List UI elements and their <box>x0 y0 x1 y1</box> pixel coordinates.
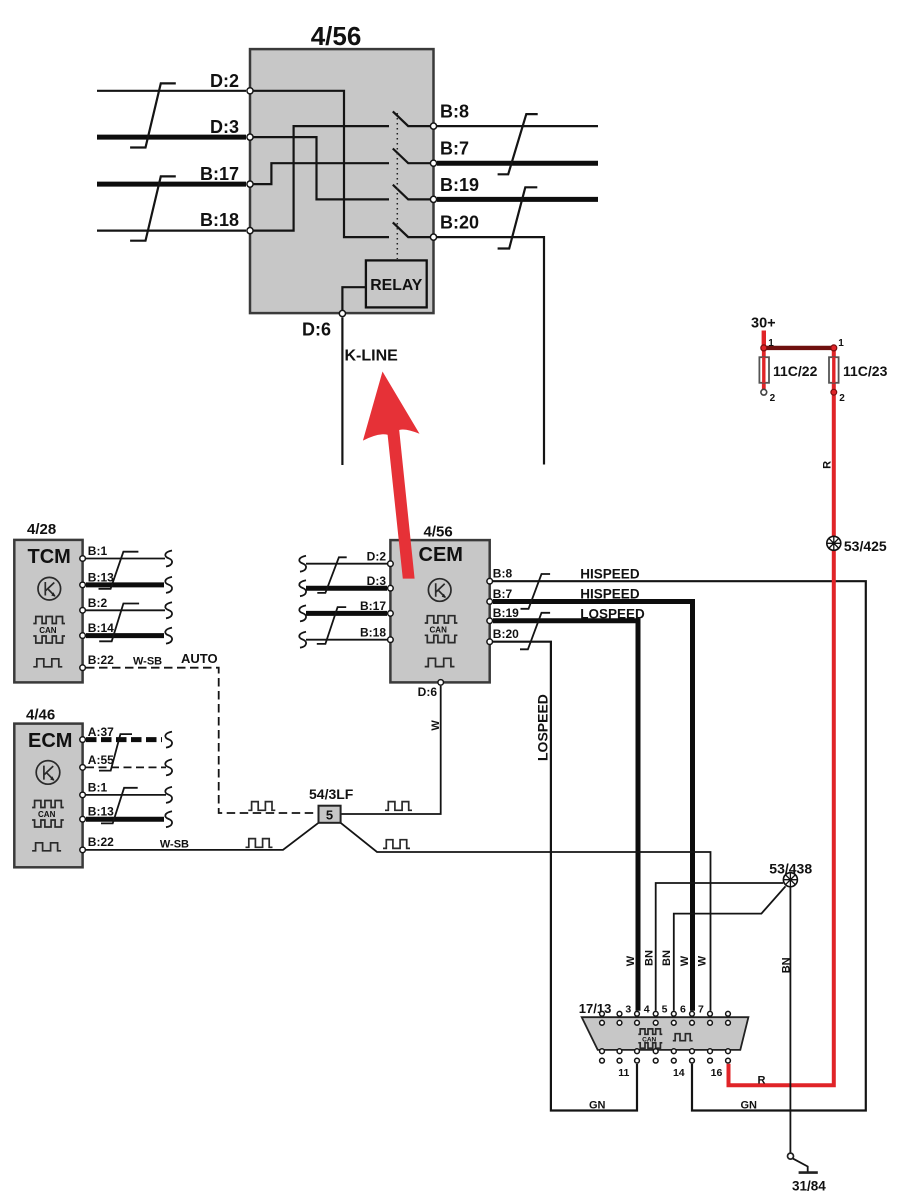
pin top inner #6 (17/13) <box>690 1020 695 1025</box>
break slash B:8/B:7 (CEM) <box>521 574 551 609</box>
svg-text:B:20: B:20 <box>493 627 519 641</box>
pin B:13 ECM <box>80 816 86 822</box>
connector symbol 53/438 <box>783 873 797 887</box>
wire-start squiggle D:3 <box>299 580 306 596</box>
pulse symbol TCM bottom <box>33 659 62 667</box>
break slash B:19/B:20 (CEM) <box>520 613 550 650</box>
svg-text:31/84: 31/84 <box>792 1178 826 1193</box>
pin bottom outer #4 (17/13) <box>653 1058 658 1063</box>
svg-text:4/56: 4/56 <box>311 21 362 51</box>
pin B:19 <box>430 196 436 202</box>
pin B:22 TCM <box>80 665 86 671</box>
wire-end squiggle B:2 <box>165 602 172 618</box>
svg-text:A:55: A:55 <box>88 753 114 767</box>
wire-end squiggle B:1 ECM <box>165 787 172 803</box>
wire-start squiggle B:17 <box>299 605 306 621</box>
red supply stub from 30+ <box>762 331 766 348</box>
svg-text:4/56: 4/56 <box>424 523 453 540</box>
wire-end squiggle A:55 <box>165 759 172 775</box>
pin B:20 CEM <box>487 639 493 645</box>
pin top outer #8 (17/13) <box>726 1011 731 1016</box>
svg-text:D:3: D:3 <box>210 117 239 137</box>
wire B:1 ECM <box>86 794 166 796</box>
relay control dotted line <box>396 113 398 259</box>
wire B:14 TCM (thick) <box>86 633 164 638</box>
wire A:37 ECM (thick dashed) <box>86 737 162 742</box>
pin bottom outer #5 (17/13) <box>671 1058 676 1063</box>
pin bottom outer #7 (17/13) <box>708 1058 713 1063</box>
break slash B:17/B:18 <box>130 176 176 240</box>
svg-text:B:18: B:18 <box>360 625 386 639</box>
pin top inner #2 (17/13) <box>617 1020 622 1025</box>
pin top outer #5 (17/13) <box>671 1011 676 1016</box>
control unit box 4/56 (top relay unit) <box>250 49 434 313</box>
wire-end squiggle B:13 ECM <box>165 811 172 827</box>
svg-text:B:1: B:1 <box>88 544 108 558</box>
fuse body 11C/22 <box>759 357 769 383</box>
pin D:6 CEM <box>438 680 444 686</box>
pin top outer #2 (17/13) <box>617 1011 622 1016</box>
svg-text:11C/23: 11C/23 <box>843 363 888 379</box>
svg-text:CAN: CAN <box>642 1036 656 1043</box>
svg-text:BN: BN <box>643 950 655 966</box>
pin top outer #3 (17/13) <box>635 1011 640 1016</box>
svg-text:CAN: CAN <box>430 625 448 634</box>
svg-text:W: W <box>696 955 708 966</box>
pulse symbol on ECM B:22 wire <box>246 839 273 848</box>
pin bottom outer #2 (17/13) <box>617 1058 622 1063</box>
break slash B:2/B:14 <box>99 604 139 642</box>
break slash A:37/A:55 <box>99 734 132 771</box>
pin bottom inner #2 (17/13) <box>617 1049 622 1054</box>
K-symbol CEM <box>428 579 451 602</box>
break slash B:17/B:18 (CEM) <box>317 607 346 644</box>
wire B:7 HISPEED (thick) down to pin 6 <box>493 602 693 1011</box>
fuse element 11C/22 (red) <box>762 357 765 383</box>
fuse element 11C/23 (red) <box>832 357 835 383</box>
pin B:7 <box>430 160 436 166</box>
wire B:17 left (thick) <box>97 182 246 187</box>
red wire through fuse 11C/23 down to bottom <box>729 348 834 1085</box>
wire BN to pin 4 <box>656 883 784 1011</box>
internal wire D:3 to switch 3 <box>252 137 389 199</box>
svg-text:B:17: B:17 <box>360 599 386 613</box>
pin bottom inner #3 (17/13) <box>635 1049 640 1054</box>
internal wire B:18 to switch 1 <box>252 126 389 231</box>
pin bottom outer #6 (17/13) <box>690 1058 695 1063</box>
pin D:3 CEM <box>388 585 394 591</box>
wire D:6 CEM down to 54/3LF <box>341 686 441 814</box>
pin D:6 (top box) <box>339 310 345 316</box>
pin B:18 CEM <box>388 637 394 643</box>
wire B:20 LOSPEED to GN pin 11 <box>493 642 637 1111</box>
junction dot 1 (11C/23) <box>831 345 837 351</box>
wire D:2 left <box>97 90 246 92</box>
svg-text:B:8: B:8 <box>493 567 513 581</box>
pulse symbol on D:6 wire <box>385 802 412 811</box>
terminal 2 of 11C/23 (red dot) <box>831 389 837 395</box>
break slash D:2/D:3 <box>130 83 176 147</box>
pin bottom inner #5 (17/13) <box>671 1049 676 1054</box>
pin A:37 <box>80 737 86 743</box>
pin B:22 ECM <box>80 847 86 853</box>
wire K-LINE <box>341 318 343 466</box>
CAN symbol TCM <box>33 617 65 644</box>
internal wire D:2 to switch 4 <box>252 91 389 237</box>
pin top inner #1 (17/13) <box>600 1020 605 1025</box>
wire B:22 TCM dashed (W-SB / AUTO) <box>86 668 319 813</box>
wire B:17 CEM (thick) <box>306 611 387 616</box>
junction box 54/3LF <box>319 806 341 823</box>
wire B:2 TCM <box>86 609 165 611</box>
svg-text:2: 2 <box>770 393 776 404</box>
pin bottom inner #7 (17/13) <box>708 1049 713 1054</box>
svg-text:3: 3 <box>625 1004 631 1016</box>
pin bottom outer #1 (17/13) <box>600 1058 605 1063</box>
wire B:20 right, turns down <box>437 237 544 464</box>
wire D:3 left (thick) <box>97 135 246 140</box>
svg-text:W: W <box>430 720 442 731</box>
pin top inner #4 (17/13) <box>653 1020 658 1025</box>
pin bottom inner #4 (17/13) <box>653 1049 658 1054</box>
wire B:7 right (thick) <box>437 161 598 166</box>
connector symbol 53/425 <box>827 536 841 550</box>
ground bar 31/84 <box>799 1171 818 1174</box>
pin B:20 <box>430 234 436 240</box>
svg-text:CAN: CAN <box>38 810 56 819</box>
control unit box 4/28 TCM <box>14 540 82 683</box>
pin D:2 CEM <box>388 561 394 567</box>
pin B:17 CEM <box>388 611 394 617</box>
svg-text:1: 1 <box>768 338 774 349</box>
wire B:18 CEM <box>306 639 387 641</box>
svg-text:16: 16 <box>711 1067 723 1079</box>
pin top inner #7 (17/13) <box>708 1020 713 1025</box>
red arrow <box>363 372 420 579</box>
svg-text:CAN: CAN <box>39 626 57 635</box>
svg-text:2: 2 <box>839 393 845 404</box>
pin B:18 <box>247 228 253 234</box>
pin top outer #4 (17/13) <box>653 1011 658 1016</box>
svg-text:B:17: B:17 <box>200 164 239 184</box>
svg-text:6: 6 <box>680 1004 686 1016</box>
svg-text:B:7: B:7 <box>440 139 469 159</box>
wire-end squiggle B:14 <box>165 628 172 644</box>
pin top outer #6 (17/13) <box>690 1011 695 1016</box>
svg-text:11C/22: 11C/22 <box>773 363 818 379</box>
svg-text:4/46: 4/46 <box>26 707 55 724</box>
pin A:55 <box>80 765 86 771</box>
CAN symbol CEM <box>425 616 458 643</box>
wire relay to D:6 <box>342 287 366 310</box>
pin B:8 CEM <box>487 578 493 584</box>
switch 3 (B:19) <box>393 185 431 200</box>
svg-text:B:18: B:18 <box>200 210 239 230</box>
svg-text:HISPEED: HISPEED <box>580 587 640 602</box>
wire-end squiggle B:1 <box>165 551 172 567</box>
svg-text:B:13: B:13 <box>88 805 114 819</box>
svg-text:TCM: TCM <box>28 546 71 568</box>
pin bottom inner #6 (17/13) <box>690 1049 695 1054</box>
svg-text:B:22: B:22 <box>88 653 114 667</box>
pin top inner #3 (17/13) <box>635 1020 640 1025</box>
svg-text:BN: BN <box>661 950 673 966</box>
dark red feed line between fuse pins 1 <box>764 346 834 350</box>
pin B:13 TCM <box>80 582 86 588</box>
svg-text:53/425: 53/425 <box>844 538 887 554</box>
svg-text:14: 14 <box>673 1067 685 1079</box>
svg-text:W-SB: W-SB <box>133 655 162 667</box>
pin B:1 ECM <box>80 792 86 798</box>
svg-text:R: R <box>758 1074 766 1086</box>
svg-text:B:22: B:22 <box>88 835 114 849</box>
CAN symbol (17/13) <box>638 1029 662 1048</box>
svg-text:7: 7 <box>698 1004 704 1016</box>
K-symbol TCM <box>38 577 61 600</box>
ground terminal circle <box>788 1153 794 1159</box>
K-symbol ECM <box>36 761 60 785</box>
break slash B:1/B:13 <box>99 552 139 589</box>
svg-text:4/28: 4/28 <box>27 521 56 538</box>
wire-end squiggle A:37 <box>165 732 172 748</box>
svg-text:HISPEED: HISPEED <box>580 566 640 581</box>
svg-text:B:19: B:19 <box>440 175 479 195</box>
svg-text:4: 4 <box>644 1004 650 1016</box>
svg-text:1: 1 <box>838 338 844 349</box>
svg-text:W: W <box>679 955 691 966</box>
pin bottom outer #8 (17/13) <box>726 1058 731 1063</box>
svg-text:R: R <box>822 461 834 469</box>
open terminal 2 of 11C/22 <box>761 389 767 395</box>
wire BN from 53/438 to ground <box>789 887 791 1153</box>
svg-text:D:2: D:2 <box>367 549 387 563</box>
svg-text:B:13: B:13 <box>88 570 114 584</box>
pin top inner #5 (17/13) <box>671 1020 676 1025</box>
svg-text:11: 11 <box>618 1067 629 1079</box>
svg-text:D:6: D:6 <box>302 320 331 340</box>
svg-text:A:37: A:37 <box>88 725 114 739</box>
pin top outer #1 (17/13) <box>600 1011 605 1016</box>
svg-text:17/13: 17/13 <box>579 1001 612 1016</box>
svg-text:5: 5 <box>662 1004 668 1016</box>
wire A:55 ECM (dashed) <box>86 766 166 768</box>
svg-text:D:2: D:2 <box>210 71 239 91</box>
svg-text:B:20: B:20 <box>440 213 479 233</box>
pin top inner #8 (17/13) <box>726 1020 731 1025</box>
svg-text:B:14: B:14 <box>88 621 114 635</box>
svg-text:W: W <box>625 955 637 966</box>
wire B:8 right <box>437 125 598 127</box>
svg-text:B:2: B:2 <box>88 596 108 610</box>
pulse symbol on W wire <box>383 840 410 849</box>
fuse body 11C/23 <box>829 357 839 383</box>
wire B:19 LOSPEED (thick) down to pin 3 <box>493 621 638 1011</box>
wire-end squiggle B:13 <box>165 577 172 593</box>
wire BN to pin 5 <box>674 886 786 1011</box>
pulse symbol (17/13) <box>673 1034 693 1041</box>
pulse symbol CEM bottom <box>425 658 455 666</box>
svg-text:LOSPEED: LOSPEED <box>580 607 645 622</box>
pin B:2 TCM <box>80 608 86 614</box>
wire-start squiggle D:2 <box>299 556 306 572</box>
wire B:13 ECM (thick) <box>86 817 164 822</box>
pin D:3 <box>247 134 253 140</box>
svg-text:LOSPEED: LOSPEED <box>534 694 550 761</box>
svg-text:BN: BN <box>780 957 792 973</box>
wire B:22 ECM to 54/3LF <box>86 823 319 850</box>
pin D:2 <box>247 88 253 94</box>
pin top outer #7 (17/13) <box>708 1011 713 1016</box>
svg-text:D:3: D:3 <box>367 574 387 588</box>
relay box <box>366 260 427 307</box>
svg-text:30+: 30+ <box>751 315 776 331</box>
svg-text:ECM: ECM <box>28 730 72 752</box>
wire D:2 CEM <box>306 563 387 565</box>
pin B:7 CEM <box>487 599 493 605</box>
break slash B:19/B:20 <box>498 187 538 248</box>
svg-text:D:6: D:6 <box>418 685 438 699</box>
svg-text:CEM: CEM <box>419 544 463 566</box>
internal wire B:17 to switch 2 <box>252 163 389 184</box>
pin bottom outer #3 (17/13) <box>635 1058 640 1063</box>
wire B:13 TCM (thick) <box>86 582 164 587</box>
switch 2 (B:7) <box>393 149 431 164</box>
pin B:19 CEM <box>487 618 493 624</box>
svg-text:GN: GN <box>589 1099 606 1111</box>
switch 4 (B:20) <box>393 222 431 237</box>
svg-text:5: 5 <box>326 808 333 823</box>
svg-text:B:19: B:19 <box>493 606 519 620</box>
pin bottom inner #1 (17/13) <box>600 1049 605 1054</box>
pin bottom inner #8 (17/13) <box>726 1049 731 1054</box>
pulse symbol ECM bottom <box>32 843 61 851</box>
break slash B:1/B:13 ECM <box>101 788 138 824</box>
control unit box 4/56 CEM <box>390 540 489 682</box>
pin B:14 TCM <box>80 633 86 639</box>
control unit box 4/46 ECM <box>14 724 82 868</box>
wire D:3 CEM (thick) <box>306 586 387 591</box>
ground lead 31/84 <box>793 1158 808 1171</box>
svg-text:B:8: B:8 <box>440 102 469 122</box>
pin B:8 <box>430 123 436 129</box>
wire B:18 left <box>97 230 246 232</box>
svg-text:B:1: B:1 <box>88 780 108 794</box>
wire-start squiggle B:18 <box>299 632 306 648</box>
connector body 17/13 (trapezoid) <box>582 1017 749 1050</box>
wire 54/3LF to pin 7 (W) <box>341 823 711 1011</box>
svg-text:AUTO: AUTO <box>181 651 218 666</box>
svg-text:B:7: B:7 <box>493 587 513 601</box>
junction dot 1 (11C/22) <box>761 345 767 351</box>
break slash D:2/D:3 (CEM) <box>317 557 346 593</box>
wire B:1 TCM <box>86 558 165 560</box>
CAN symbol ECM <box>32 801 64 828</box>
pin B:1 TCM <box>80 556 86 562</box>
svg-text:W-SB: W-SB <box>160 838 189 850</box>
break slash B:8/B:7 <box>498 114 538 174</box>
red wire through fuse 11C/22 <box>762 348 766 389</box>
pulse symbol on dashed wire <box>248 802 275 811</box>
svg-text:GN: GN <box>741 1099 758 1111</box>
svg-text:K-LINE: K-LINE <box>345 348 399 365</box>
svg-text:54/3LF: 54/3LF <box>309 786 354 802</box>
svg-text:RELAY: RELAY <box>370 277 423 294</box>
switch 1 (B:8) <box>393 111 431 126</box>
pin B:17 <box>247 181 253 187</box>
wire B:8 HISPEED to GN pin 14 <box>493 581 866 1110</box>
wire B:19 right (thick) <box>437 197 598 202</box>
